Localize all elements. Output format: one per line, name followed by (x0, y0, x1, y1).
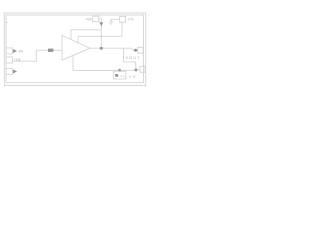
supply arrow +VS (99, 22, 103, 26)
wire J4 stub (142, 49, 145, 51)
wire testpoint TP1 vertical (100, 19, 102, 48)
resistor R1 (48, 49, 53, 52)
output connector J4 box (138, 47, 143, 53)
ground symbol bars (109, 22, 113, 25)
wire input to op-amp (53, 49, 62, 51)
wire V- pin down (72, 56, 74, 71)
connector J5 box (140, 66, 145, 72)
wire J5 stub (138, 69, 140, 71)
capacitor C2 box (114, 71, 126, 79)
svg-text:CL: CL (120, 74, 125, 78)
svg-text:-VS: -VS (127, 16, 134, 21)
capacitor C2 polarity mark (115, 74, 118, 77)
wire output (90, 48, 138, 50)
border frame inner (6, 15, 144, 83)
border tick mark (6, 22, 8, 24)
junction dot node C (118, 69, 121, 72)
junction diamond node VEE (134, 68, 138, 72)
junction dot node A (100, 47, 103, 50)
op-amp U1 (62, 35, 90, 60)
wire TP2 stub left (111, 19, 120, 21)
svg-text:+IN: +IN (14, 57, 21, 62)
wire feedback net (78, 22, 122, 43)
svg-text:+VS: +VS (85, 16, 92, 21)
svg-text:-IN: -IN (18, 48, 23, 53)
wire -VS rail (73, 69, 135, 71)
arrow glyph J1 (13, 49, 17, 53)
border frame outer (4, 13, 145, 86)
wire TP1 stub (99, 18, 101, 20)
connector J1 box (6, 48, 12, 54)
wire output branch down (124, 48, 136, 68)
svg-text:VOUT: VOUT (126, 55, 141, 60)
connector J3 box (6, 68, 12, 74)
wire C2 stub (119, 69, 121, 72)
testpoint TP2 box (120, 16, 126, 22)
junction dot node B (134, 49, 137, 52)
testpoint TP1 box (93, 16, 99, 21)
wire input main (36, 49, 48, 51)
connector J2 box (6, 57, 12, 63)
wire V+ pin up (71, 30, 101, 40)
arrow glyph J3 (13, 70, 17, 74)
wire J2 branch (12, 50, 36, 61)
